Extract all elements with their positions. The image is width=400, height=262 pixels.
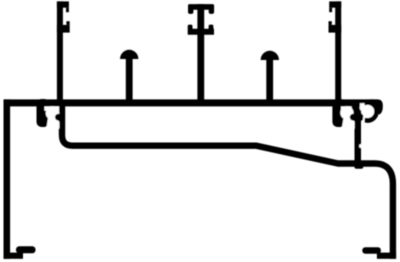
right gasket slot 1 bbox=[342, 116, 355, 129]
right gasket jaw bbox=[332, 99, 345, 127]
inner web: stub, shelf, slope, lower flat, right corner, right wall bbox=[62, 102, 393, 259]
mushroom stud right bbox=[261, 51, 279, 60]
top flange right end curl: ring around cavity bbox=[366, 103, 376, 120]
right T-stem bbox=[355, 118, 362, 169]
left stub nub bbox=[55, 114, 62, 121]
mushroom stud left bbox=[120, 50, 138, 59]
left foot bbox=[4, 253, 24, 259]
right C-post bbox=[335, 1, 341, 100]
black nubs drawn after punches bbox=[55, 114, 364, 121]
stem top blob (nub base) bbox=[350, 104, 365, 121]
final white slot between nub2 and curl tip bbox=[363, 114, 364, 124]
right stem nub 1 bbox=[350, 114, 357, 121]
T-post bbox=[197, 4, 204, 100]
curl to bar transition blob bbox=[369, 99, 383, 114]
left gasket slot bbox=[46, 116, 59, 129]
left C-post bbox=[57, 1, 63, 100]
top flange bbox=[4, 99, 374, 106]
right gasket cavity 1 bbox=[340, 106, 353, 119]
stem notch bbox=[359, 144, 362, 148]
right foot bbox=[377, 253, 396, 259]
right gasket cavity 2 bbox=[361, 105, 374, 118]
right stem nub 2 bbox=[357, 114, 363, 120]
white cavity punches bbox=[44, 103, 374, 148]
left wall bbox=[4, 99, 11, 258]
left gasket cavity bbox=[46, 106, 60, 120]
left gasket jaw bbox=[37, 99, 50, 127]
